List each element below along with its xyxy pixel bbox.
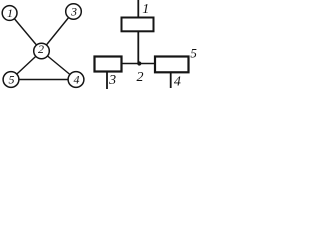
svg-text:2: 2 [137, 70, 144, 85]
svg-text:3: 3 [108, 73, 116, 88]
svg-text:4: 4 [74, 73, 80, 87]
svg-text:5: 5 [190, 45, 197, 60]
svg-text:5: 5 [9, 73, 15, 87]
svg-text:4: 4 [174, 74, 181, 89]
svg-text:2: 2 [38, 42, 44, 56]
svg-text:3: 3 [70, 5, 77, 19]
svg-text:1: 1 [7, 6, 13, 20]
svg-text:1: 1 [142, 2, 149, 17]
